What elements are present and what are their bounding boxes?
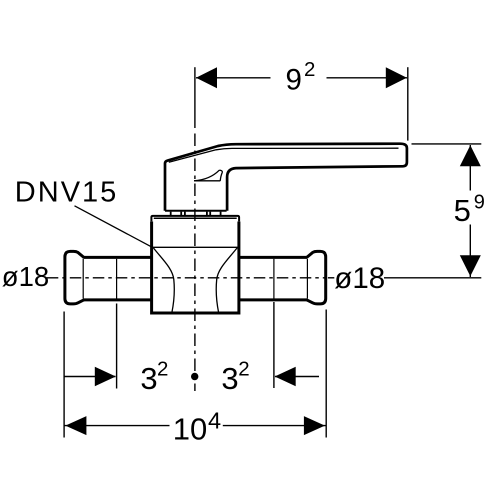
svg-text:3: 3	[221, 361, 238, 396]
svg-text:ø18: ø18	[2, 261, 49, 292]
svg-text:2: 2	[238, 358, 249, 381]
svg-text:4: 4	[208, 408, 221, 434]
svg-text:9: 9	[286, 64, 302, 97]
svg-text:DNV15: DNV15	[15, 176, 117, 208]
svg-text:2: 2	[304, 58, 315, 81]
svg-text:2: 2	[157, 358, 168, 381]
svg-text:10: 10	[173, 411, 207, 446]
svg-text:9: 9	[474, 191, 485, 213]
svg-text:3: 3	[140, 361, 157, 396]
svg-text:ø18: ø18	[334, 262, 385, 295]
svg-text:5: 5	[454, 193, 471, 228]
